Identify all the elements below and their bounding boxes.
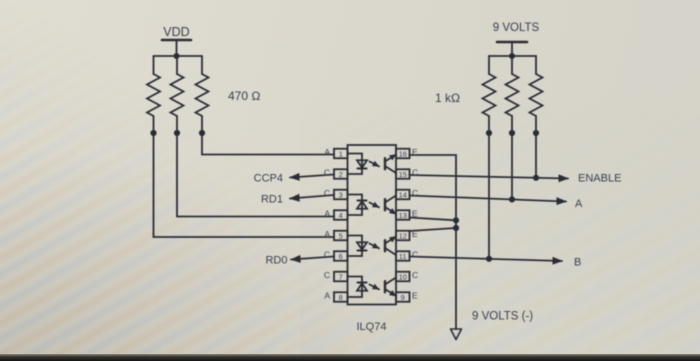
junction dot R4 to B: [486, 256, 492, 262]
pin 1 box: [334, 149, 348, 159]
light arrow cell 1: [370, 162, 380, 167]
pin 14 box: [396, 190, 410, 200]
svg-text:8: 8: [339, 293, 343, 302]
svg-text:14: 14: [399, 190, 407, 199]
VDD power symbol: [162, 39, 191, 42]
wire pin6 to RD0 arrow: [291, 257, 334, 260]
pin 16 box: [396, 149, 410, 159]
svg-text:15: 15: [399, 170, 407, 179]
svg-text:ENABLE: ENABLE: [578, 173, 621, 185]
svg-text:B: B: [574, 257, 581, 269]
wire R3 bottom stub: [201, 116, 203, 133]
pin 4 box: [334, 210, 348, 220]
svg-text:C: C: [324, 270, 330, 280]
svg-text:7: 7: [339, 272, 343, 281]
svg-text:RD1: RD1: [261, 194, 283, 206]
svg-text:9 VOLTS (-): 9 VOLTS (-): [472, 311, 533, 323]
svg-text:2: 2: [339, 170, 343, 179]
svg-text:9: 9: [401, 293, 405, 302]
svg-text:9 VOLTS: 9 VOLTS: [493, 22, 540, 34]
svg-text:1: 1: [339, 149, 343, 158]
svg-text:E: E: [412, 209, 418, 219]
phototransistor Q1: [384, 158, 386, 169]
resistor R1 470 ohm (left): [147, 74, 160, 116]
op-amp U1 body ILQ74 optocoupler: [348, 145, 397, 305]
svg-text:CCP4: CCP4: [254, 173, 283, 185]
svg-text:3: 3: [339, 190, 343, 199]
wire R3 to pin 1: [202, 133, 334, 155]
svg-text:C: C: [412, 188, 418, 198]
svg-text:6: 6: [339, 252, 343, 261]
light arrow cell 2: [370, 203, 380, 208]
wire VDD distribution bus: [154, 55, 203, 57]
wire pin14 to A arrow: [410, 196, 567, 202]
svg-text:VDD: VDD: [163, 25, 189, 39]
wire 9V distribution bus: [489, 55, 536, 57]
wire pin15 to ENABLE arrow: [410, 175, 569, 179]
svg-text:A: A: [324, 209, 330, 219]
svg-text:A: A: [324, 229, 330, 239]
wire R2 to pin 4: [177, 133, 334, 217]
cell 4 input bracket: [348, 277, 363, 298]
svg-text:C: C: [324, 250, 330, 260]
pin 9 box: [396, 292, 410, 302]
svg-text:C: C: [324, 168, 330, 178]
LED D4: [357, 283, 367, 291]
junction dot R6 bottom: [533, 130, 539, 136]
junction dot pin13 rail: [453, 217, 459, 223]
wire bus to R2 top: [176, 56, 178, 74]
cell 3 input bracket: [348, 236, 363, 257]
wire R1 bottom stub: [153, 116, 155, 133]
pin 13 box: [396, 210, 410, 220]
svg-text:A: A: [575, 198, 583, 210]
9V power symbol: [497, 41, 527, 44]
wire pin3 to RD1 arrow: [290, 195, 334, 199]
LED D3: [357, 242, 367, 250]
pin 10 box: [396, 272, 410, 282]
junction dot 9V node: [509, 53, 515, 59]
svg-text:16: 16: [399, 149, 407, 158]
svg-text:ILQ74: ILQ74: [357, 321, 387, 333]
pin 8 box: [334, 292, 348, 302]
wire bus to R3 top: [201, 56, 203, 74]
svg-text:A: A: [324, 147, 330, 157]
LED D1: [357, 160, 367, 168]
ground arrow 9 volts minus: [451, 329, 462, 340]
cell 2 input bracket: [348, 195, 363, 216]
wire pin16 to negative rail: [410, 155, 457, 329]
pin 5 box: [334, 231, 348, 241]
svg-text:1 kΩ: 1 kΩ: [435, 91, 460, 105]
wire R2 bottom stub: [176, 116, 178, 133]
pin 7 box: [334, 272, 348, 282]
svg-text:C: C: [324, 188, 330, 198]
wire R6 bottom stub: [535, 116, 537, 133]
phototransistor Q4: [384, 281, 386, 292]
wire R6 down to ENABLE line: [535, 133, 537, 178]
LED D2: [357, 201, 367, 209]
junction dot R6 to ENABLE: [533, 175, 539, 181]
wire pin12 to rail: [410, 228, 457, 231]
wire R4 bottom stub: [488, 116, 490, 133]
svg-text:E: E: [412, 147, 418, 157]
pin 2 box: [334, 169, 348, 179]
pin 6 box: [334, 251, 348, 261]
junction dot R1 bottom: [150, 130, 156, 136]
wire pin2 to CCP4 arrow: [290, 175, 334, 178]
svg-text:12: 12: [399, 231, 407, 240]
junction dot R2 bottom: [174, 130, 180, 136]
pin 11 box: [396, 251, 410, 261]
svg-text:10: 10: [399, 272, 407, 281]
svg-text:470 Ω: 470 Ω: [228, 89, 261, 103]
wire bus to R4 top: [488, 56, 490, 74]
wire R4 down to B line: [488, 133, 490, 259]
pin 3 box: [334, 190, 348, 200]
junction dot R4 bottom: [486, 130, 492, 136]
junction dot VDD node: [174, 53, 180, 59]
resistor R5 1k (middle): [506, 74, 519, 116]
svg-text:A: A: [324, 291, 330, 301]
junction dot R5 bottom: [509, 130, 515, 136]
wire bus to R6 top: [535, 56, 537, 74]
svg-text:13: 13: [399, 211, 407, 220]
light arrow cell 4: [370, 285, 380, 290]
svg-text:C: C: [412, 168, 418, 178]
svg-text:E: E: [412, 229, 418, 239]
wire R1 to pin 5: [154, 133, 335, 237]
svg-text:C: C: [412, 250, 418, 260]
svg-text:C: C: [412, 270, 418, 280]
wire bus to R5 top: [511, 56, 513, 74]
wire pin13 to rail: [410, 218, 457, 221]
wire R5 bottom stub: [511, 116, 513, 133]
phototransistor Q2: [384, 199, 386, 210]
pin 15 box: [396, 169, 410, 179]
cell 1 input bracket: [348, 154, 363, 175]
wire R5 down to A line: [511, 133, 513, 199]
svg-text:4: 4: [339, 211, 343, 220]
junction dot R5 to A: [509, 196, 515, 202]
phototransistor Q3: [384, 240, 386, 251]
pin 12 box: [396, 231, 410, 241]
svg-text:11: 11: [399, 252, 407, 261]
svg-text:RD0: RD0: [265, 255, 287, 267]
resistor R2 470 ohm (middle): [171, 74, 184, 116]
svg-text:5: 5: [339, 231, 343, 240]
wire pin11 to B arrow: [410, 257, 563, 262]
resistor R6 1k (right): [530, 74, 543, 116]
wire bus to R1 top: [153, 56, 155, 74]
light arrow cell 3: [370, 244, 380, 249]
resistor R4 1k (left): [483, 74, 496, 116]
junction dot R3 bottom: [199, 130, 205, 136]
svg-text:E: E: [412, 291, 418, 301]
junction dot pin12 rail: [453, 225, 459, 231]
resistor R3 470 ohm (right): [196, 74, 209, 116]
